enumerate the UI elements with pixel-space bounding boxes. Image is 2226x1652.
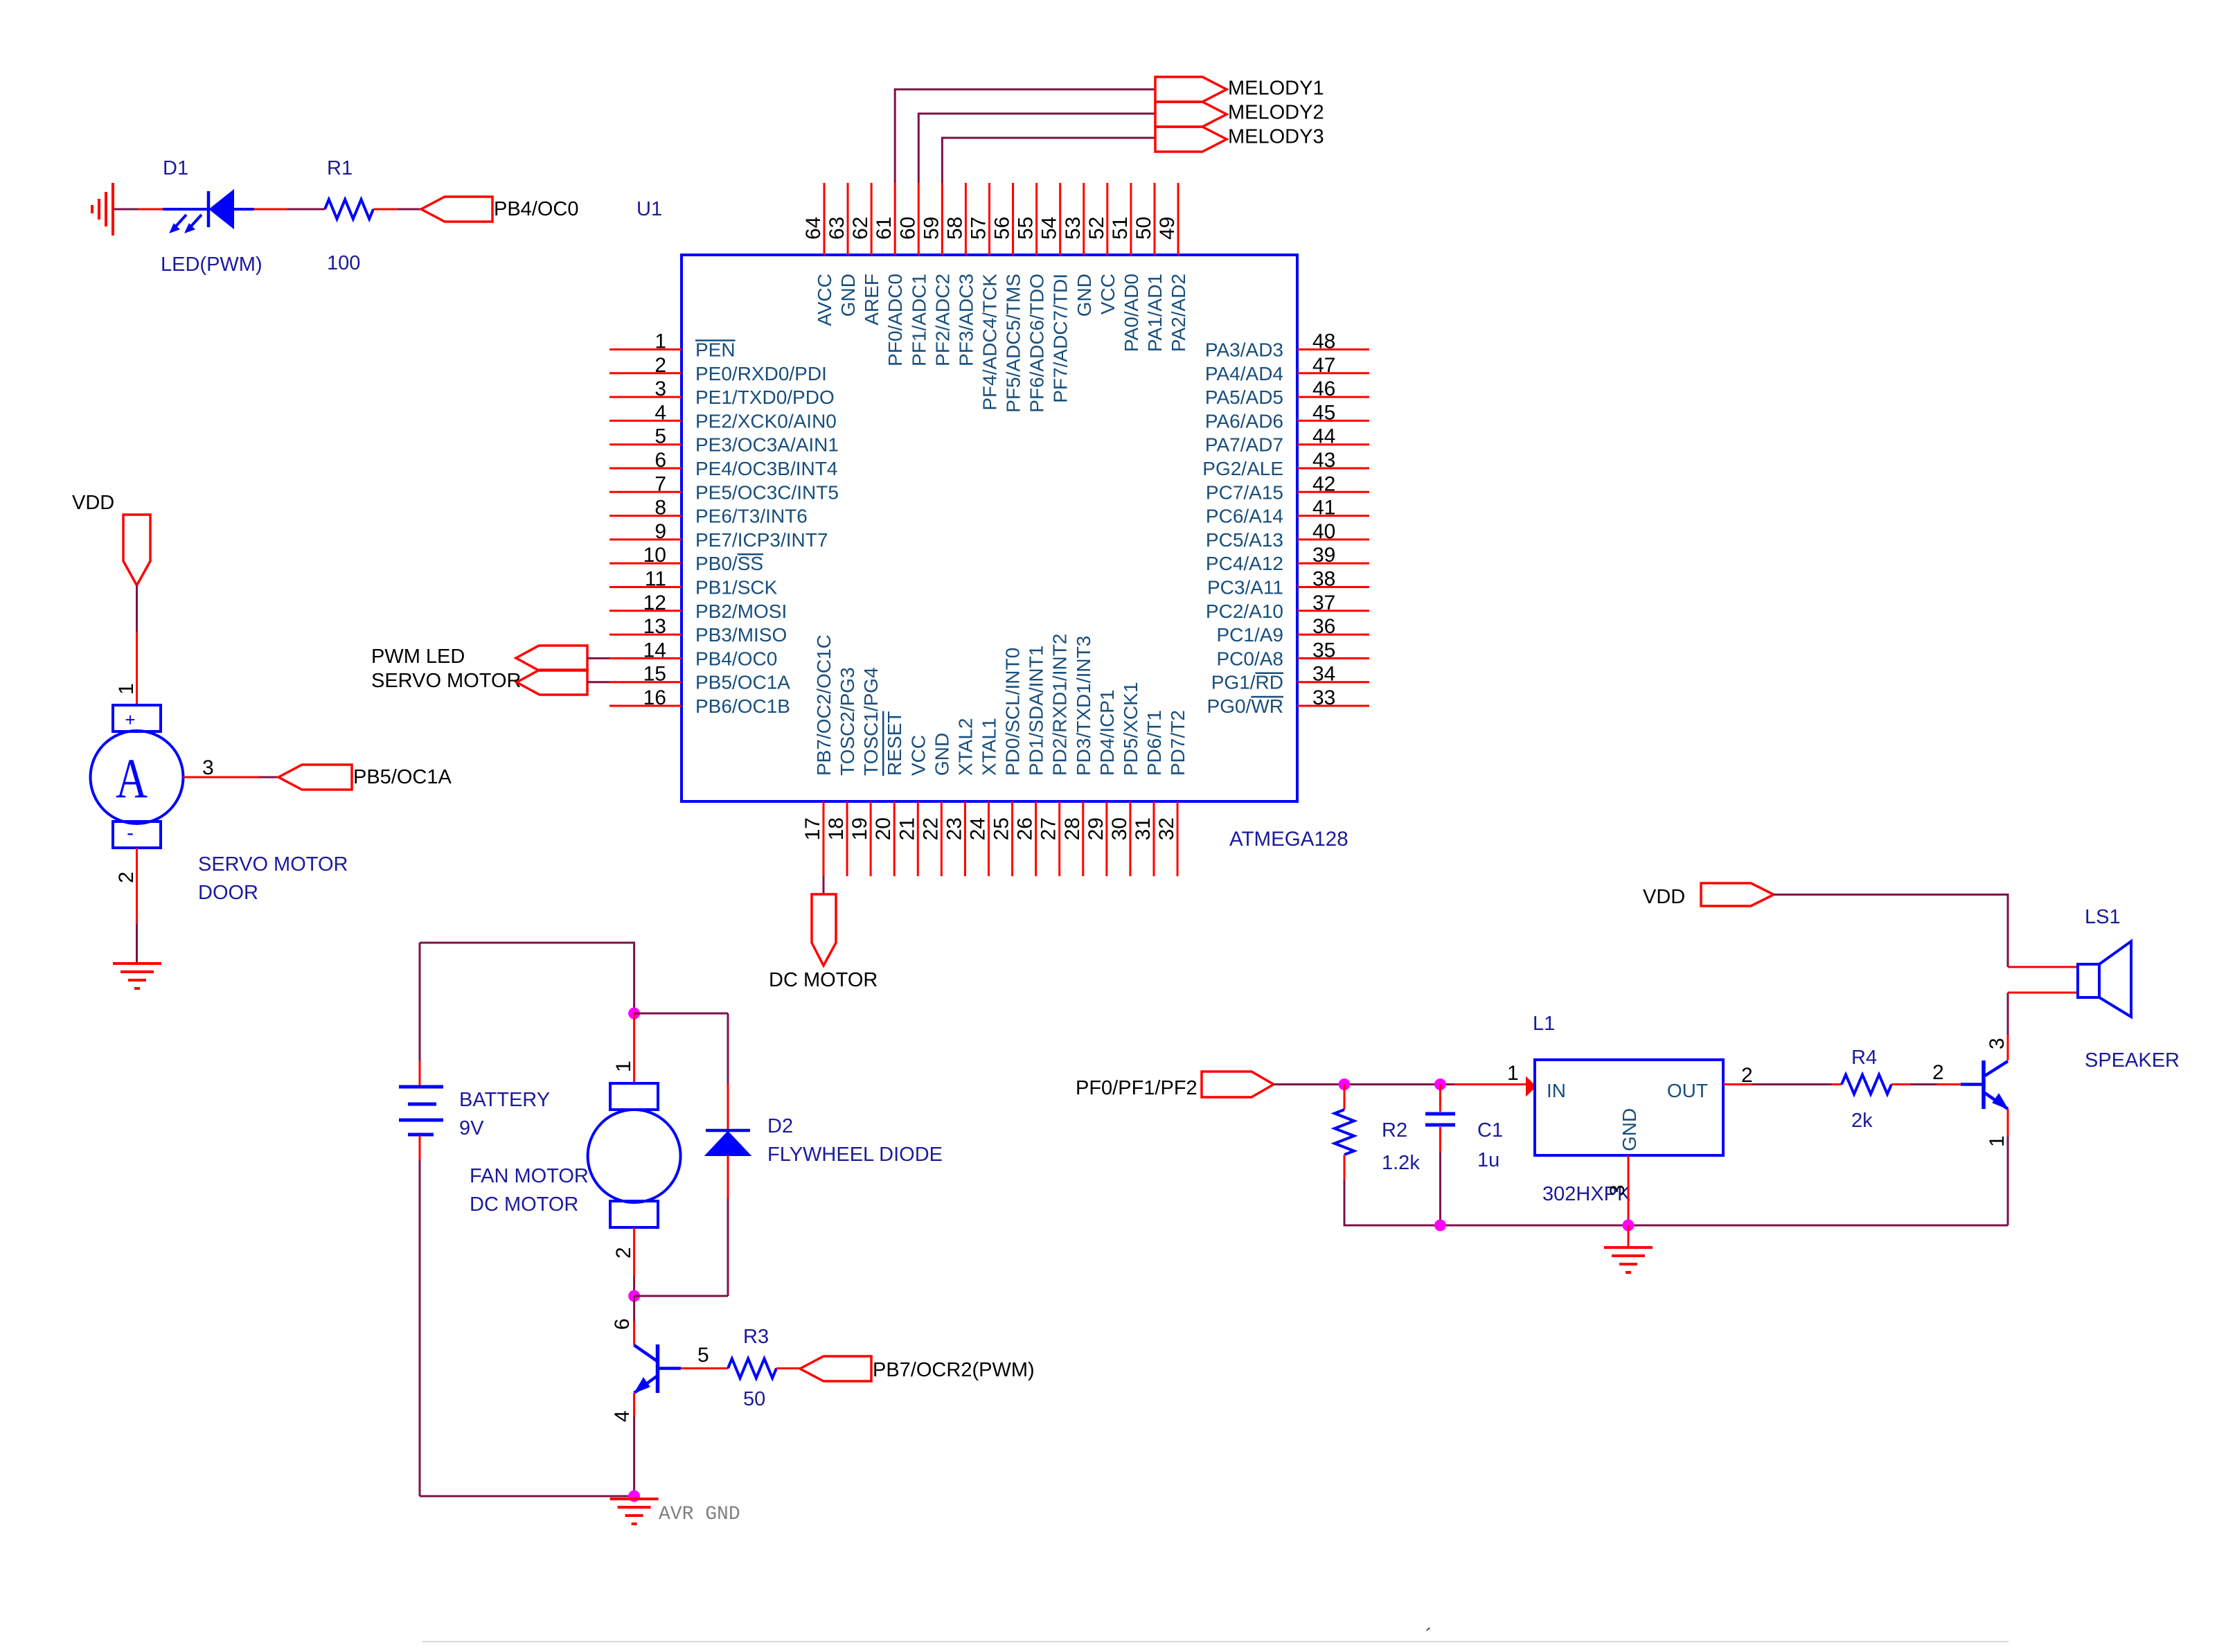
svg-text:52: 52 bbox=[1085, 217, 1108, 240]
svg-text:30: 30 bbox=[1108, 817, 1131, 840]
U1 pin 19 (TOSC1/PG4) bbox=[848, 667, 882, 876]
svg-text:PB7/OCR2(PWM): PB7/OCR2(PWM) bbox=[873, 1359, 1035, 1381]
svg-text:PB4/OC0: PB4/OC0 bbox=[695, 648, 777, 669]
svg-text:PB5/OC1A: PB5/OC1A bbox=[695, 672, 790, 693]
svg-text:55: 55 bbox=[1015, 217, 1038, 240]
U1 pin 15 (PB5/OC1A) bbox=[609, 663, 790, 693]
U1 pin 32 (PD7/T2) bbox=[1155, 710, 1188, 876]
wire battery left vertical bbox=[419, 943, 421, 1060]
svg-text:36: 36 bbox=[1312, 615, 1335, 638]
svg-text:PF3/ADC3: PF3/ADC3 bbox=[955, 274, 977, 366]
svg-text:VCC: VCC bbox=[907, 735, 929, 776]
svg-text:12: 12 bbox=[643, 592, 666, 614]
U1 pin 25 (PD0/SCL/INT0) bbox=[990, 648, 1024, 876]
D2 anode pin bbox=[727, 1155, 729, 1198]
Q1 collector pin bbox=[633, 1321, 635, 1345]
U1 pin 56 (PF5/ADC5/TMS) bbox=[991, 183, 1024, 413]
svg-text:57: 57 bbox=[967, 217, 990, 240]
svg-text:XTAL2: XTAL2 bbox=[954, 718, 976, 776]
wire bottom to AVR GND node bbox=[420, 1495, 634, 1498]
svg-text:35: 35 bbox=[1312, 639, 1335, 661]
svg-text:PD7/T2: PD7/T2 bbox=[1167, 710, 1188, 776]
wire input red segment bbox=[1454, 1083, 1526, 1085]
U1 pin 17 (PB7/OC2/OC1C) bbox=[801, 634, 835, 876]
junction C1 top bbox=[1434, 1078, 1446, 1090]
svg-text:61: 61 bbox=[873, 217, 896, 240]
U1 pin 22 (GND) bbox=[919, 733, 952, 876]
wire VDD to speaker bbox=[1774, 895, 2008, 968]
svg-text:PG2/ALE: PG2/ALE bbox=[1202, 458, 1283, 479]
svg-text:51: 51 bbox=[1109, 217, 1132, 240]
port PF0/PF1/PF2 connector bbox=[1202, 1072, 1274, 1097]
svg-text:4: 4 bbox=[611, 1410, 634, 1422]
svg-text:PD2/RXD1/INT2: PD2/RXD1/INT2 bbox=[1049, 634, 1071, 776]
op-amp U1 body (ATMEGA128 outline) bbox=[682, 255, 1297, 801]
U1 pin 29 (PD4/ICP1) bbox=[1085, 690, 1118, 877]
svg-text:16: 16 bbox=[643, 686, 666, 709]
svg-text:3: 3 bbox=[1606, 1184, 1629, 1196]
speaker LS1 pin - (bottom) bbox=[2008, 992, 2078, 994]
svg-text:PC2/A10: PC2/A10 bbox=[1206, 601, 1283, 622]
svg-text:PE6/T3/INT6: PE6/T3/INT6 bbox=[695, 506, 808, 527]
svg-text:ATMEGA128: ATMEGA128 bbox=[1229, 828, 1348, 851]
U1 pin 61 (PF0/ADC0) bbox=[873, 183, 906, 366]
svg-text:PA4/AD4: PA4/AD4 bbox=[1205, 363, 1283, 384]
svg-text:PD6/T1: PD6/T1 bbox=[1143, 710, 1165, 776]
svg-text:PF6/ADC6/TDO: PF6/ADC6/TDO bbox=[1026, 274, 1048, 413]
transistor Q1 (NPN, mirrored) bbox=[634, 1344, 681, 1393]
svg-text:FLYWHEEL DIODE: FLYWHEEL DIODE bbox=[767, 1144, 943, 1166]
U1 pin 37 (PC2/A10) bbox=[1206, 592, 1369, 622]
svg-text:28: 28 bbox=[1061, 817, 1084, 840]
svg-text:PF0/PF1/PF2: PF0/PF1/PF2 bbox=[1076, 1077, 1197, 1099]
svg-text:17: 17 bbox=[801, 817, 824, 840]
svg-text:MELODY2: MELODY2 bbox=[1228, 102, 1324, 124]
R4 left pin bbox=[1832, 1083, 1842, 1085]
resistor R3 bbox=[728, 1359, 776, 1378]
wire diode branch bottom bbox=[634, 1295, 728, 1297]
U1 pin 42 (PC7/A15) bbox=[1206, 472, 1369, 503]
svg-text:XTAL1: XTAL1 bbox=[978, 718, 999, 776]
svg-text:3: 3 bbox=[202, 756, 214, 779]
svg-text:PC0/A8: PC0/A8 bbox=[1217, 648, 1284, 669]
svg-text:R3: R3 bbox=[743, 1326, 769, 1348]
svg-text:19: 19 bbox=[848, 817, 871, 840]
Q2 collector pin bbox=[2007, 1035, 2009, 1060]
svg-text:7: 7 bbox=[655, 472, 666, 495]
svg-text:22: 22 bbox=[919, 817, 942, 840]
wire R1 to port bbox=[398, 208, 421, 211]
junction R2 top bbox=[1339, 1078, 1351, 1090]
svg-text:VDD: VDD bbox=[1643, 886, 1685, 908]
svg-text:8: 8 bbox=[655, 497, 666, 519]
U1 pin 59 (PF2/ADC2) bbox=[920, 183, 953, 366]
svg-text:PC6/A14: PC6/A14 bbox=[1206, 506, 1283, 527]
wire node to Q1 collector bbox=[633, 1296, 635, 1321]
wire Q1 emitter to AVR GND bbox=[633, 1416, 635, 1496]
svg-text:IN: IN bbox=[1547, 1080, 1566, 1101]
svg-text:13: 13 bbox=[643, 615, 666, 638]
svg-text:PB1/SCK: PB1/SCK bbox=[695, 577, 778, 598]
U1 pin 38 (PC3/A11) bbox=[1207, 568, 1369, 598]
svg-text:32: 32 bbox=[1155, 817, 1178, 840]
svg-text:FAN MOTOR: FAN MOTOR bbox=[470, 1165, 589, 1187]
svg-text:45: 45 bbox=[1312, 401, 1335, 424]
melody IC L1 box bbox=[1535, 1060, 1723, 1155]
U1 pin 34 (PG1/RD) bbox=[1211, 663, 1369, 693]
svg-text:PB3/MISO: PB3/MISO bbox=[695, 624, 787, 646]
junction C1 bottom bbox=[1434, 1220, 1446, 1232]
svg-text:PB2/MOSI: PB2/MOSI bbox=[695, 601, 787, 622]
junction fan/diode bottom node bbox=[628, 1290, 640, 1302]
wire PF0 to MELODY1 bbox=[895, 89, 1155, 183]
R2 bottom pin bbox=[1344, 1155, 1346, 1180]
svg-text:PB7/OC2/OC1C: PB7/OC2/OC1C bbox=[813, 634, 835, 776]
R2 top pin bbox=[1344, 1085, 1346, 1110]
svg-text:PF1/ADC1: PF1/ADC1 bbox=[908, 274, 929, 366]
U1 pin 43 (PG2/ALE) bbox=[1202, 449, 1369, 479]
U1 pin 11 (PB1/SCK) bbox=[609, 568, 778, 598]
U1 pin 23 (XTAL2) bbox=[943, 718, 976, 876]
svg-text:VCC: VCC bbox=[1097, 274, 1119, 314]
sheet border bottom line bbox=[422, 1641, 2009, 1642]
U1 pin 12 (PB2/MOSI) bbox=[609, 592, 787, 622]
fan motor M2 symbol bbox=[588, 1083, 681, 1227]
wire Q2 collector to speaker bbox=[2007, 993, 2009, 1035]
capacitor C1 bbox=[1425, 1114, 1455, 1125]
speaker LS1 symbol bbox=[2078, 941, 2131, 1017]
svg-text:PB4/OC0: PB4/OC0 bbox=[494, 198, 579, 220]
battery BT1 top pin bbox=[419, 1060, 421, 1086]
C1 bottom pin bbox=[1439, 1127, 1441, 1152]
U1 pin 51 (PA0/AD0) bbox=[1109, 183, 1142, 352]
svg-text:27: 27 bbox=[1038, 817, 1060, 840]
svg-text:50: 50 bbox=[1132, 217, 1155, 240]
svg-text:PWM LED: PWM LED bbox=[371, 646, 465, 668]
svg-text:PA1/AD1: PA1/AD1 bbox=[1144, 274, 1166, 352]
wire SERVO MOTOR port to pin 15 bbox=[587, 681, 609, 683]
wire OUT to R4 bbox=[1752, 1083, 1832, 1085]
U1 pin 6 (PE4/OC3B/INT4) bbox=[609, 449, 837, 479]
U1 pin 44 (PA7/AD7) bbox=[1205, 425, 1369, 456]
U1 pin 2 (PE0/RXD0/PDI) bbox=[609, 354, 827, 384]
svg-text:PF7/ADC7/TDI: PF7/ADC7/TDI bbox=[1050, 274, 1071, 403]
svg-text:50: 50 bbox=[743, 1388, 765, 1410]
wire C1 to bottom rail bbox=[1439, 1152, 1441, 1225]
U1 pin 47 (PA4/AD4) bbox=[1205, 354, 1369, 384]
svg-text:37: 37 bbox=[1312, 592, 1335, 614]
junction AVR GND node bbox=[628, 1491, 640, 1502]
svg-text:TOSC2/PG3: TOSC2/PG3 bbox=[837, 667, 858, 776]
L1 pin 1 arrow bbox=[1526, 1078, 1535, 1095]
diode D1 (LED) bbox=[163, 190, 254, 233]
svg-text:49: 49 bbox=[1156, 217, 1179, 240]
wire VDD to servo pin 1 bbox=[136, 585, 138, 632]
wire diode bottom segment bbox=[727, 1198, 729, 1296]
servo motor M1 pin 3 bbox=[184, 776, 260, 779]
svg-text:1: 1 bbox=[1986, 1135, 2009, 1147]
U1 pin 13 (PB3/MISO) bbox=[609, 615, 787, 646]
U1 pin 20 (RESET) bbox=[872, 711, 905, 876]
svg-text:R4: R4 bbox=[1851, 1047, 1877, 1069]
svg-text:R2: R2 bbox=[1382, 1119, 1407, 1142]
svg-text:PA7/AD7: PA7/AD7 bbox=[1205, 434, 1283, 456]
svg-text:MELODY1: MELODY1 bbox=[1228, 78, 1324, 100]
port DC MOTOR connector bbox=[812, 894, 836, 966]
svg-text:10: 10 bbox=[643, 544, 666, 567]
svg-text:PA5/AD5: PA5/AD5 bbox=[1205, 387, 1283, 408]
svg-text:2: 2 bbox=[115, 871, 138, 883]
speaker LS1 pin + (top) bbox=[2008, 966, 2078, 968]
servo motor M1 symbol bbox=[91, 705, 184, 848]
svg-text:PC1/A9: PC1/A9 bbox=[1217, 624, 1284, 646]
svg-text:LS1: LS1 bbox=[2085, 906, 2121, 928]
U1 pin 46 (PA5/AD5) bbox=[1205, 378, 1369, 408]
U1 pin 31 (PD6/T1) bbox=[1132, 710, 1165, 876]
diode D2 (flywheel) bbox=[706, 1130, 750, 1155]
junction battery/fan top node bbox=[628, 1008, 640, 1020]
svg-text:5: 5 bbox=[655, 425, 666, 448]
U1 pin 7 (PE5/OC3C/INT5) bbox=[609, 472, 839, 503]
svg-text:34: 34 bbox=[1312, 663, 1335, 686]
svg-text:L1: L1 bbox=[1533, 1013, 1555, 1035]
ground AVR GND bbox=[610, 1499, 659, 1524]
svg-text:1: 1 bbox=[115, 683, 138, 695]
L1 pin 3 (GND) bbox=[1628, 1155, 1630, 1225]
resistor R1 bbox=[325, 199, 373, 219]
R3 right pin bbox=[776, 1367, 800, 1369]
resistor R2 bbox=[1335, 1110, 1354, 1155]
U1 pin 1 (PEN) bbox=[609, 330, 736, 361]
svg-text:AVCC: AVCC bbox=[814, 274, 835, 326]
svg-text:20: 20 bbox=[872, 817, 895, 840]
svg-text:U1: U1 bbox=[636, 198, 662, 220]
svg-text:14: 14 bbox=[643, 639, 666, 661]
wire node to diode branch top bbox=[634, 1013, 728, 1015]
svg-text:1u: 1u bbox=[1477, 1149, 1499, 1171]
svg-text:PD3/TXD1/INT3: PD3/TXD1/INT3 bbox=[1073, 636, 1094, 776]
svg-text:PC3/A11: PC3/A11 bbox=[1207, 577, 1283, 598]
fan motor M2 pin 1 bbox=[633, 1013, 635, 1083]
svg-text:GND: GND bbox=[1074, 274, 1095, 317]
svg-text:GND: GND bbox=[837, 274, 859, 317]
svg-text:PE7/ICP3/INT7: PE7/ICP3/INT7 bbox=[695, 529, 828, 551]
svg-text:SPEAKER: SPEAKER bbox=[2085, 1049, 2180, 1072]
U1 pin 53 (GND) bbox=[1062, 183, 1095, 317]
resistor R4 bbox=[1842, 1075, 1891, 1094]
svg-text:C1: C1 bbox=[1477, 1119, 1503, 1142]
D1 anode pin bbox=[138, 208, 163, 211]
wire R4 to Q2 base bbox=[1910, 1083, 1936, 1085]
U1 pin 8 (PE6/T3/INT6) bbox=[609, 497, 808, 527]
svg-text:R1: R1 bbox=[327, 157, 353, 179]
port PWM LED connector bbox=[516, 646, 587, 670]
power port VDD (servo) bbox=[123, 515, 150, 585]
ground (servo) bbox=[113, 963, 161, 988]
svg-text:PC7/A15: PC7/A15 bbox=[1206, 481, 1283, 503]
svg-text:BATTERY: BATTERY bbox=[459, 1089, 550, 1111]
U1 pin 55 (PF6/ADC6/TDO) bbox=[1015, 183, 1048, 413]
ground (melody) bbox=[1604, 1247, 1653, 1272]
svg-text:PA6/AD6: PA6/AD6 bbox=[1205, 410, 1283, 432]
L1 pin 2 (OUT) bbox=[1723, 1083, 1752, 1085]
svg-text:DC MOTOR: DC MOTOR bbox=[470, 1193, 578, 1216]
svg-text:PE3/OC3A/AIN1: PE3/OC3A/AIN1 bbox=[695, 434, 839, 456]
U1 pin 3 (PE1/TXD0/PDO) bbox=[609, 378, 835, 408]
port MELODY3 (off-page connector) bbox=[1155, 127, 1227, 152]
svg-text:60: 60 bbox=[896, 217, 919, 240]
svg-text:GND: GND bbox=[1619, 1108, 1640, 1151]
Q1 base pin bbox=[681, 1367, 728, 1369]
svg-text:PD1/SDA/INT1: PD1/SDA/INT1 bbox=[1026, 646, 1047, 776]
svg-text:2: 2 bbox=[1741, 1064, 1753, 1087]
U1 pin 28 (PD3/TXD1/INT3) bbox=[1061, 636, 1094, 876]
svg-text:AREF: AREF bbox=[861, 274, 882, 326]
U1 pin 36 (PC1/A9) bbox=[1217, 615, 1370, 646]
svg-text:RESET: RESET bbox=[884, 711, 905, 776]
svg-text:62: 62 bbox=[849, 217, 872, 240]
wire fan pin2 to node bbox=[633, 1277, 635, 1296]
svg-text:64: 64 bbox=[802, 217, 825, 240]
U1 pin 63 (GND) bbox=[826, 183, 859, 317]
U1 pin 5 (PE3/OC3A/AIN1) bbox=[609, 425, 839, 456]
fan motor M2 pin 2 bbox=[633, 1227, 635, 1277]
Q1 emitter pin bbox=[633, 1393, 635, 1416]
svg-text:PC5/A13: PC5/A13 bbox=[1206, 529, 1283, 551]
svg-text:54: 54 bbox=[1038, 217, 1061, 240]
svg-text:38: 38 bbox=[1312, 568, 1335, 591]
svg-text:DOOR: DOOR bbox=[198, 882, 258, 904]
svg-text:44: 44 bbox=[1312, 425, 1335, 448]
svg-text:3: 3 bbox=[655, 378, 666, 400]
U1 pin 57 (PF4/ADC4/TCK) bbox=[967, 183, 1000, 411]
U1 pin 26 (PD1/SDA/INT1) bbox=[1014, 646, 1047, 876]
svg-text:53: 53 bbox=[1062, 217, 1085, 240]
svg-text:PB0/SS: PB0/SS bbox=[695, 553, 763, 574]
wire battery top bbox=[420, 943, 634, 1013]
svg-text:48: 48 bbox=[1312, 330, 1335, 353]
svg-text:100: 100 bbox=[327, 252, 360, 274]
svg-text:3: 3 bbox=[1986, 1038, 2009, 1049]
svg-text:PB5/OC1A: PB5/OC1A bbox=[353, 766, 452, 788]
U1 pin 10 (PB0/SS) bbox=[609, 544, 763, 574]
svg-text:LED(PWM): LED(PWM) bbox=[161, 254, 262, 276]
U1 pin 54 (PF7/ADC7/TDI) bbox=[1038, 183, 1071, 403]
svg-text:PG1/RD: PG1/RD bbox=[1211, 672, 1283, 693]
svg-text:PD5/XCK1: PD5/XCK1 bbox=[1120, 682, 1141, 776]
svg-text:11: 11 bbox=[645, 568, 666, 591]
svg-text:´: ´ bbox=[1425, 1625, 1432, 1648]
svg-text:2: 2 bbox=[612, 1247, 635, 1259]
svg-text:PE0/RXD0/PDI: PE0/RXD0/PDI bbox=[695, 363, 827, 384]
svg-text:2: 2 bbox=[1932, 1061, 1944, 1084]
svg-text:46: 46 bbox=[1312, 378, 1335, 400]
svg-text:-: - bbox=[127, 821, 134, 844]
wire servo pin2 to ground bbox=[136, 924, 138, 963]
junction L1 GND bottom bbox=[1623, 1220, 1635, 1232]
svg-text:2: 2 bbox=[655, 354, 666, 377]
svg-text:18: 18 bbox=[825, 817, 848, 840]
R4 right pin bbox=[1891, 1083, 1910, 1085]
svg-text:SERVO MOTOR: SERVO MOTOR bbox=[198, 853, 348, 876]
svg-text:29: 29 bbox=[1085, 817, 1107, 840]
U1 pin 64 (AVCC) bbox=[802, 183, 835, 326]
svg-text:OUT: OUT bbox=[1667, 1080, 1708, 1101]
svg-text:PD0/SCL/INT0: PD0/SCL/INT0 bbox=[1002, 648, 1024, 776]
svg-text:5: 5 bbox=[697, 1344, 709, 1367]
svg-text:PF4/ADC4/TCK: PF4/ADC4/TCK bbox=[979, 274, 1000, 411]
wire port to L1 input bbox=[1274, 1083, 1454, 1085]
Q2 emitter pin bbox=[2007, 1109, 2009, 1136]
svg-text:26: 26 bbox=[1014, 817, 1037, 840]
svg-text:63: 63 bbox=[826, 217, 848, 240]
U1 pin 30 (PD5/XCK1) bbox=[1108, 682, 1141, 876]
svg-text:D2: D2 bbox=[767, 1115, 793, 1137]
power ground (rotated bar ground, top-left) bbox=[92, 183, 113, 236]
U1 pin 58 (PF3/ADC3) bbox=[943, 183, 977, 366]
wire GND dot to ground bbox=[1628, 1225, 1630, 1247]
U1 pin 24 (XTAL1) bbox=[966, 718, 999, 876]
wire diode top segment bbox=[727, 1013, 729, 1084]
U1 pin 50 (PA1/AD1) bbox=[1132, 183, 1166, 352]
U1 pin 4 (PE2/XCK0/AIN0) bbox=[609, 401, 837, 432]
wire servo pin3 to port bbox=[259, 776, 278, 779]
svg-text:40: 40 bbox=[1312, 520, 1335, 543]
svg-text:23: 23 bbox=[943, 817, 965, 840]
svg-text:PB6/OC1B: PB6/OC1B bbox=[695, 695, 790, 717]
U1 pin 39 (PC4/A12) bbox=[1206, 544, 1369, 574]
port PB5/OC1A connector bbox=[278, 765, 352, 790]
svg-text:PF5/ADC5/TMS: PF5/ADC5/TMS bbox=[1003, 274, 1024, 413]
svg-text:PC4/A12: PC4/A12 bbox=[1206, 553, 1283, 574]
svg-text:PE1/TXD0/PDO: PE1/TXD0/PDO bbox=[695, 387, 835, 408]
U1 pin 49 (PA2/AD2) bbox=[1156, 183, 1189, 352]
wire PF2 to MELODY3 bbox=[942, 138, 1155, 183]
U1 pin 33 (PG0/WR) bbox=[1207, 686, 1369, 717]
svg-text:1: 1 bbox=[612, 1060, 635, 1072]
svg-text:39: 39 bbox=[1312, 544, 1335, 567]
U1 pin 18 (TOSC2/PG3) bbox=[825, 667, 858, 876]
svg-text:PE5/OC3C/INT5: PE5/OC3C/INT5 bbox=[695, 481, 839, 503]
D1 cathode pin bbox=[254, 208, 287, 211]
svg-text:PE4/OC3B/INT4: PE4/OC3B/INT4 bbox=[695, 458, 837, 479]
svg-text:31: 31 bbox=[1132, 817, 1155, 840]
U1 pin 27 (PD2/RXD1/INT2) bbox=[1038, 634, 1071, 876]
svg-text:41: 41 bbox=[1312, 497, 1335, 519]
svg-text:33: 33 bbox=[1312, 686, 1335, 709]
U1 pin 21 (VCC) bbox=[896, 735, 929, 876]
svg-text:21: 21 bbox=[896, 817, 918, 840]
svg-text:1.2k: 1.2k bbox=[1382, 1152, 1420, 1174]
svg-text:59: 59 bbox=[920, 217, 943, 240]
svg-text:56: 56 bbox=[991, 217, 1014, 240]
svg-text:MELODY3: MELODY3 bbox=[1228, 126, 1324, 148]
svg-text:25: 25 bbox=[990, 817, 1013, 840]
svg-text:PD4/ICP1: PD4/ICP1 bbox=[1096, 690, 1118, 776]
svg-text:1: 1 bbox=[1507, 1062, 1519, 1085]
servo motor M1 pin 2 bbox=[136, 848, 138, 924]
svg-text:24: 24 bbox=[966, 817, 989, 840]
U1 pin 52 (VCC) bbox=[1085, 183, 1119, 314]
port SERVO MOTOR connector bbox=[517, 670, 587, 695]
svg-text:TOSC1/PG4: TOSC1/PG4 bbox=[860, 667, 882, 776]
U1 pin 16 (PB6/OC1B) bbox=[609, 686, 790, 717]
U1 pin 35 (PC0/A8) bbox=[1217, 639, 1370, 669]
port MELODY1 (off-page connector) bbox=[1155, 77, 1227, 102]
svg-text:47: 47 bbox=[1312, 354, 1335, 377]
U1 pin 45 (PA6/AD6) bbox=[1205, 401, 1369, 432]
wire ground to D1 bbox=[113, 208, 138, 211]
